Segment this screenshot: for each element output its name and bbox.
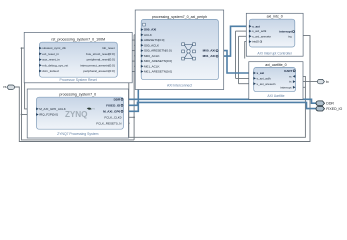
pin s_axi_aresetn	[249, 35, 252, 38]
svg-text:UART: UART	[284, 69, 293, 73]
wire: rx net bottom rail	[14, 36, 311, 142]
svg-text:tx: tx	[326, 80, 329, 84]
svg-text:bus_struct_reset[0:0]: bus_struct_reset[0:0]	[86, 52, 115, 56]
svg-text:s_axi: s_axi	[252, 24, 260, 28]
svg-text:intr[0:0]: intr[0:0]	[252, 40, 262, 44]
svg-text:TM: TM	[92, 109, 95, 111]
svg-text:s_axi_aclk: s_axi_aclk	[257, 77, 272, 81]
svg-text:interrupt: interrupt	[279, 30, 292, 34]
svg-text:ext_reset_in: ext_reset_in	[42, 52, 59, 56]
wire: tx stub	[296, 81, 318, 83]
wire: aresetn rail A	[117, 40, 305, 137]
pin ACLK	[141, 33, 144, 36]
wire: S00_AXI interface trunk	[123, 30, 141, 112]
svg-text:AXI Uartlite: AXI Uartlite	[267, 94, 284, 98]
external port rx	[3, 85, 14, 89]
svg-text:M_AXI_GP0_ACLK: M_AXI_GP0_ACLK	[39, 107, 66, 111]
pin dcm_locked	[39, 70, 42, 73]
svg-text:ARESETN[0:0]: ARESETN[0:0]	[144, 38, 164, 42]
block processing_system7_0 (ZYNQ7 Processing System)	[27, 89, 128, 138]
svg-text:mb_debug_sys_rst: mb_debug_sys_rst	[42, 63, 68, 67]
svg-text:M00_AXI: M00_AXI	[203, 49, 216, 53]
pin s_axi_aresetn	[253, 82, 256, 85]
pin mb_debug_sys_rst	[39, 64, 42, 67]
svg-text:S00_AXI: S00_AXI	[144, 28, 156, 32]
svg-text:FIXED_IO: FIXED_IO	[106, 103, 121, 107]
pin M00_ARESETN[0:0]	[141, 60, 144, 63]
svg-text:Processor System Reset: Processor System Reset	[60, 78, 97, 82]
block processing_system7_0_axi_periph (AXI Interconnect)	[135, 10, 224, 90]
svg-text:FIXED_IO: FIXED_IO	[326, 107, 342, 111]
svg-text:s_axi_aclk: s_axi_aclk	[252, 29, 267, 33]
svg-text:S00_ARESETN[0:0]: S00_ARESETN[0:0]	[144, 49, 172, 53]
svg-text:ZYNQ7 Processing System: ZYNQ7 Processing System	[57, 132, 98, 136]
svg-text:mb_reset: mb_reset	[102, 46, 115, 50]
svg-text:axi_intc_0: axi_intc_0	[267, 15, 283, 19]
wire: intr stub	[245, 42, 250, 59]
svg-text:M_AXI_GP0: M_AXI_GP0	[103, 109, 120, 113]
svg-text:AXI Interconnect: AXI Interconnect	[167, 84, 192, 88]
wire: M01_AXI interface	[218, 26, 249, 56]
svg-text:ACLK: ACLK	[144, 33, 152, 37]
svg-text:processing_system7_0: processing_system7_0	[59, 92, 96, 96]
svg-text:slowest_sync_clk: slowest_sync_clk	[42, 46, 66, 50]
block rst_processing_system7_0_100M (Processor System Reset)	[24, 32, 132, 82]
wire: FCLK_RESET0_N to ext_reset_in	[25, 54, 40, 109]
svg-text:rst_processing_system7_0_100M: rst_processing_system7_0_100M	[51, 38, 105, 42]
pin ARESETN[0:0]	[141, 39, 144, 42]
svg-text:interrupt: interrupt	[280, 85, 291, 89]
svg-text:DDR: DDR	[326, 102, 334, 106]
external port tx	[317, 79, 329, 84]
svg-text:axi_uartlite_0: axi_uartlite_0	[265, 63, 286, 67]
pin slowest_sync_clk	[39, 47, 42, 50]
pin S00_ARESETN[0:0]	[141, 49, 144, 52]
svg-text:M01_AXI: M01_AXI	[203, 54, 216, 58]
pin M00_ACLK	[141, 54, 144, 57]
pin intr[0:0]	[249, 40, 252, 43]
svg-text:M00_ACLK: M00_ACLK	[144, 54, 160, 58]
svg-text:M01_ARESETN[0:0]: M01_ARESETN[0:0]	[144, 70, 172, 74]
svg-text:s_axi_aresetn: s_axi_aresetn	[252, 34, 271, 38]
pin s_axi_aclk	[249, 30, 252, 33]
pin IRQ_F2P[0:0]	[36, 113, 39, 116]
svg-text:rx: rx	[3, 85, 6, 89]
svg-text:M00_ARESETN[0:0]: M00_ARESETN[0:0]	[144, 59, 172, 63]
pin M01_ACLK	[141, 65, 144, 68]
external interface port DDR	[316, 101, 334, 106]
svg-text:irq: irq	[288, 35, 292, 39]
pin s_axi	[253, 72, 256, 75]
svg-text:interconnect_aresetn[0:0]: interconnect_aresetn[0:0]	[80, 63, 115, 67]
wire: FIXED_IO interface	[123, 102, 318, 108]
pin M01_ARESETN[0:0]	[141, 70, 144, 73]
svg-text:peripheral_reset[0:0]: peripheral_reset[0:0]	[87, 58, 115, 62]
svg-text:FCLK_RESET0_N: FCLK_RESET0_N	[96, 121, 121, 125]
svg-text:s_axi: s_axi	[257, 71, 265, 75]
svg-text:aux_reset_in: aux_reset_in	[42, 58, 60, 62]
pin ext_reset_in	[39, 52, 42, 55]
pin S00_ACLK	[141, 44, 144, 47]
svg-text:FCLK_CLK0: FCLK_CLK0	[104, 115, 121, 119]
svg-text:AXI Interrupt Controller: AXI Interrupt Controller	[257, 51, 293, 55]
wire: resetn net to right blocks	[239, 36, 254, 83]
svg-text:peripheral_aresetn[0:0]: peripheral_aresetn[0:0]	[83, 69, 114, 73]
svg-text:S00_ACLK: S00_ACLK	[144, 43, 159, 47]
svg-text:M01_ACLK: M01_ACLK	[144, 64, 160, 68]
wire: DDR interface	[123, 99, 318, 103]
external interface port FIXED_IO	[316, 106, 343, 111]
expand icon	[143, 23, 146, 26]
wire: peripheral_aresetn / FCLK_RESET0_N corridor	[123, 122, 129, 124]
pin S00_AXI	[141, 28, 144, 31]
wire: clock net to right blocks	[236, 31, 254, 78]
block axi_uartlite_0 (AXI Uartlite)	[249, 62, 303, 100]
svg-text:dcm_locked: dcm_locked	[42, 69, 59, 73]
svg-text:DDR: DDR	[114, 97, 121, 101]
wire: M00_AXI interface	[218, 51, 253, 73]
block axi_intc_0 (AXI Interrupt Controller)	[246, 13, 303, 56]
svg-text:processing_system7_0_axi_perip: processing_system7_0_axi_periph	[152, 15, 207, 19]
svg-text:s_axi_aresetn: s_axi_aresetn	[257, 82, 276, 86]
svg-text:IRQ_F2P[0:0]: IRQ_F2P[0:0]	[39, 113, 58, 117]
pin M_AXI_GP0_ACLK	[36, 108, 39, 111]
pin s_axi	[249, 25, 252, 28]
pin s_axi_aclk	[253, 77, 256, 80]
pin aux_reset_in	[39, 58, 42, 61]
crossbar icon	[182, 43, 196, 60]
svg-text:ZYNQ: ZYNQ	[65, 110, 88, 119]
wire: clock corridor vertical	[134, 35, 141, 140]
wire: FCLK_CLK0 net left trunk	[21, 47, 135, 140]
